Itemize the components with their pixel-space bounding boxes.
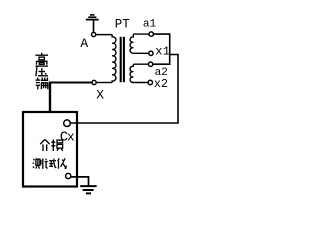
- terminal a2: [148, 62, 152, 66]
- svg-text:2: 2: [161, 77, 168, 91]
- node X: [92, 80, 96, 84]
- terminal a1: [149, 32, 153, 36]
- wire A to coil: [96, 34, 112, 36]
- svg-text:x: x: [67, 130, 75, 145]
- svg-text:PT: PT: [115, 17, 131, 31]
- tester box: [23, 112, 77, 187]
- terminal x1: [149, 51, 153, 55]
- transformer PT primary winding: [111, 35, 116, 83]
- svg-text:A: A: [80, 36, 88, 51]
- wire down to tester: [49, 82, 51, 112]
- label 测试仪: [33, 158, 67, 169]
- terminal Cx: [64, 120, 71, 127]
- label 高压端: [35, 53, 48, 90]
- ground2: [80, 186, 96, 193]
- wire X to left: [49, 82, 92, 84]
- svg-text:x: x: [155, 44, 162, 58]
- svg-text:a1: a1: [143, 18, 157, 30]
- secondary winding 1: [130, 34, 149, 53]
- core: [120, 37, 122, 82]
- label 介损: [40, 140, 62, 152]
- wire a1/a2 to right bus: [71, 34, 179, 123]
- terminal ground-side: [66, 173, 71, 178]
- svg-text:X: X: [96, 88, 104, 103]
- node A: [92, 32, 96, 36]
- terminal x2: [148, 80, 152, 84]
- ground: [86, 15, 99, 32]
- wire to ground: [71, 177, 89, 186]
- secondary winding 2: [130, 64, 148, 82]
